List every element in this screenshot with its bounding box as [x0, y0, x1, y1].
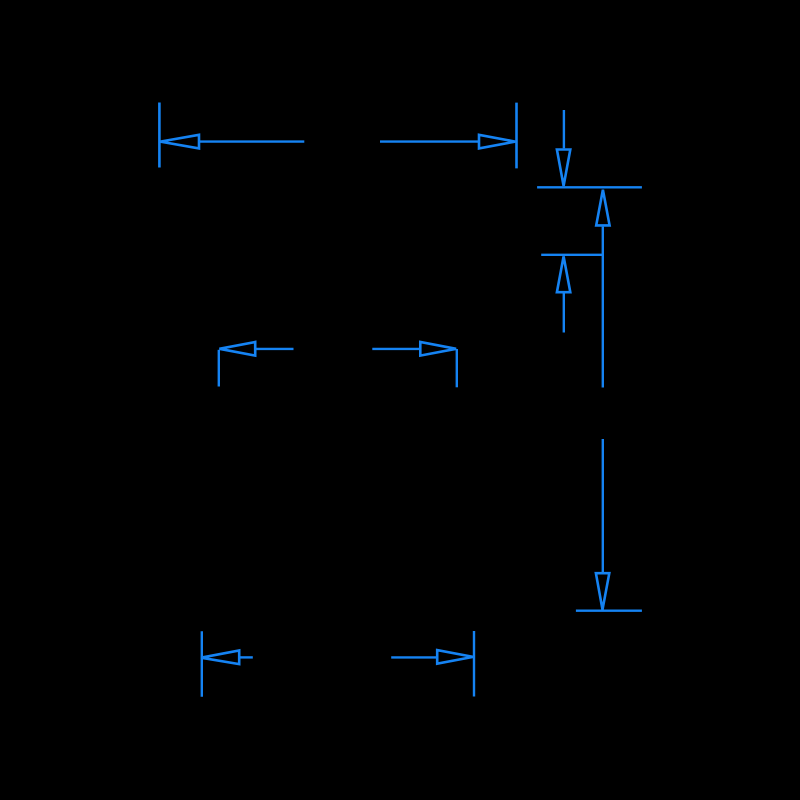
dimension D2 extension line bottom: [541, 254, 603, 256]
dimension D2 leader tail bottom: [563, 294, 565, 333]
dimension D2 extension line top: [537, 186, 642, 188]
dimension D1 arrowhead left: [160, 135, 199, 149]
dimension D1 dimension line left segment: [199, 140, 304, 142]
dimension D4 dimension line left segment: [255, 348, 293, 350]
dimension D2 arrowhead pointing up: [557, 256, 570, 292]
dimension D2 (small vertical) leader tail top: [563, 110, 565, 148]
dimension D4 arrowhead right: [420, 342, 456, 356]
dimension D5 dimension line right segment: [391, 656, 436, 658]
dimension D4 dimension line right segment: [372, 348, 420, 350]
dimension D5 (bottom width) extension line left: [201, 631, 203, 697]
dimension D5 arrowhead right: [437, 650, 473, 664]
dimension D5 arrowhead left: [201, 651, 239, 665]
dimension D2 arrowhead pointing down: [557, 150, 570, 186]
dimension D3 arrowhead down: [596, 573, 609, 609]
dimension D1 extension line right: [515, 103, 518, 169]
dimension D3 extension line bottom: [576, 610, 642, 612]
dimension D1 dimension line right segment: [380, 140, 479, 142]
dimension D5 dimension line left segment: [240, 656, 253, 658]
dimension D3 dimension line lower segment: [602, 439, 604, 573]
dimension D1 (top width) extension line left: [158, 103, 161, 168]
dimension D4 extension line left: [218, 350, 220, 387]
dimension D4 (middle width) arrowhead left: [219, 342, 255, 356]
dimension D4 extension line right: [456, 349, 458, 387]
dimension D1 arrowhead right: [479, 135, 515, 149]
dimension D3 (large vertical height) arrowhead up: [596, 190, 609, 226]
dimension D3 dimension line upper segment: [602, 227, 604, 388]
dimension D5 extension line right: [473, 631, 475, 697]
part face (black filled rectangle): [158, 103, 642, 697]
